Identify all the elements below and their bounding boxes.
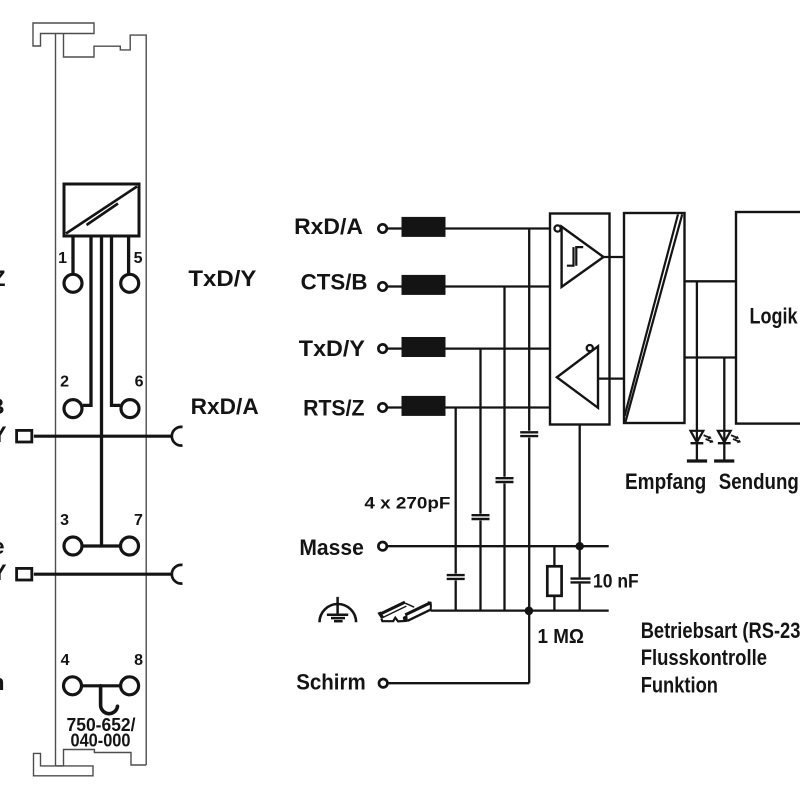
wire U2 to Logik lower xyxy=(685,356,737,358)
capacitor C5 10nF xyxy=(571,579,591,583)
Logik box U3 xyxy=(736,212,800,424)
terminal circle RxD/A xyxy=(378,224,386,232)
resistor R1 1MOhm xyxy=(547,566,561,596)
wire RxD/A to receiver xyxy=(446,227,554,229)
LED D2 arrows xyxy=(731,435,741,443)
module bottom foot xyxy=(34,753,94,775)
wire branch C2 vertical xyxy=(479,349,481,611)
module top inner profile and right edge xyxy=(64,34,147,766)
capacitor C2 270pF xyxy=(472,515,490,519)
svg-text:1: 1 xyxy=(58,250,67,267)
rail right end face xyxy=(430,605,432,611)
LED D1 Empfang xyxy=(691,431,704,460)
pin 7 xyxy=(121,537,139,555)
svg-text:1 MΩ: 1 MΩ xyxy=(538,626,585,648)
driver input bubble xyxy=(587,345,593,351)
svg-text:3: 3 xyxy=(60,512,69,529)
wire box to pin 6 xyxy=(112,236,121,405)
svg-text:5: 5 xyxy=(134,250,143,267)
rail right web left end face xyxy=(403,615,408,621)
isolation diagonal 1 xyxy=(626,214,683,421)
terminal square line 2 xyxy=(17,568,32,580)
svg-text:n: n xyxy=(0,670,5,695)
svg-text:Sendung: Sendung xyxy=(719,469,799,494)
svg-text:TxD/Y: TxD/Y xyxy=(299,336,365,361)
capacitor C3 270pF xyxy=(496,478,514,482)
rail left foot xyxy=(377,612,384,619)
resistor R1 1MOhm wire top xyxy=(553,546,555,566)
svg-text:RTS/Z: RTS/Z xyxy=(303,395,365,420)
wire LED1 anode xyxy=(696,281,698,431)
wire U1 bottom to Masse xyxy=(579,425,581,547)
wire TxD/Y to filter xyxy=(387,347,401,349)
terminal circle RTS/Z xyxy=(378,403,386,411)
svg-text:Z: Z xyxy=(0,266,6,291)
terminal circle TxD/Y xyxy=(378,344,386,352)
svg-text:RxD/A: RxD/A xyxy=(191,394,259,419)
wire Schirm vertical xyxy=(528,611,530,684)
module bottom inner profile xyxy=(56,750,147,766)
svg-text:6: 6 xyxy=(135,374,144,391)
filter bead TxD/Y xyxy=(402,337,446,357)
svg-text:Y: Y xyxy=(0,560,7,585)
pin 2 xyxy=(64,400,82,418)
terminal square line 1 xyxy=(17,430,32,442)
wire Masse bus xyxy=(387,545,609,547)
svg-text:10 nF: 10 nF xyxy=(593,572,639,593)
arc connector line 1 xyxy=(172,427,183,446)
svg-text:TxD/Y: TxD/Y xyxy=(188,266,256,291)
receiver triangle xyxy=(562,227,604,287)
wire pins 3-7 bar xyxy=(83,544,120,547)
svg-text:RxD/A: RxD/A xyxy=(294,214,363,239)
wire line 2 xyxy=(34,573,172,576)
svg-text:e: e xyxy=(0,534,5,559)
resistor R1 wire bottom xyxy=(553,596,555,611)
LED D1 cathode bar xyxy=(687,459,707,462)
pin 5 xyxy=(121,274,139,292)
terminal circle Schirm xyxy=(379,679,387,687)
wire U2 to Logik upper xyxy=(685,280,737,282)
isolation block U2 xyxy=(624,213,685,423)
wire driver input from isolation xyxy=(598,377,624,379)
rail right bottom edge xyxy=(408,610,431,621)
hook below pins 4-8 xyxy=(101,686,118,714)
wire line 1 xyxy=(34,435,172,438)
functional earth bus xyxy=(431,609,609,611)
wire box center to pins 3/7 bar xyxy=(100,236,103,546)
svg-text:Betriebsart (RS-232): Betriebsart (RS-232) xyxy=(641,618,800,643)
svg-text:Logik: Logik xyxy=(750,304,798,329)
wire Schirm horizontal xyxy=(388,682,529,684)
pin 1 xyxy=(64,274,82,292)
earth ground symbol xyxy=(320,597,357,622)
wire RTS/Z to driver corner xyxy=(446,406,599,408)
wire TxD/Y to driver bubble xyxy=(446,347,587,349)
wire box to pin 5 xyxy=(127,236,130,274)
isolation diagonal 2 xyxy=(625,214,678,416)
wire branch C4 vertical xyxy=(528,229,530,611)
svg-text:B: B xyxy=(0,394,5,419)
arc connector line 2 xyxy=(172,565,183,584)
filter bead CTS/B xyxy=(402,275,446,295)
driver triangle xyxy=(557,346,598,408)
junction dot bus/Schirm xyxy=(525,607,534,616)
receiver input bubble xyxy=(555,225,561,231)
pin 4 xyxy=(64,677,82,695)
wire box to pin 2 xyxy=(83,236,91,405)
wire LED2 anode xyxy=(723,358,725,431)
pin 3 xyxy=(64,537,82,555)
rail front bottom profile with notch xyxy=(381,618,407,622)
svg-text:Funktion: Funktion xyxy=(641,673,718,698)
terminal circle Masse xyxy=(378,542,386,550)
svg-text:7: 7 xyxy=(134,512,143,529)
capacitor C1 270pF xyxy=(447,575,465,579)
svg-text:4 x 270pF: 4 x 270pF xyxy=(364,494,450,513)
capacitor C5 10nF wires xyxy=(579,546,581,610)
DIN rail symbol xyxy=(377,601,432,621)
rail right flange top band xyxy=(405,603,429,615)
svg-text:Empfang: Empfang xyxy=(625,469,706,494)
svg-text:CTS/B: CTS/B xyxy=(301,269,368,294)
svg-text:Y: Y xyxy=(0,422,7,447)
wire receiver output xyxy=(604,256,625,258)
hysteresis symbol xyxy=(567,247,583,266)
svg-text:2: 2 xyxy=(60,374,69,391)
capacitor C4 270pF xyxy=(520,432,538,436)
wire CTS/B to filter xyxy=(387,285,401,287)
wire RTS/Z to filter xyxy=(387,406,401,408)
svg-text:Masse: Masse xyxy=(299,535,363,560)
wire RxD/A to filter xyxy=(387,227,401,229)
svg-text:Flusskontrolle: Flusskontrolle xyxy=(641,645,767,670)
rail right web bottom edge xyxy=(408,610,430,621)
pin 8 xyxy=(121,677,139,695)
LED D1 arrows xyxy=(704,435,714,443)
terminal circle CTS/B xyxy=(378,282,386,290)
wire branch C3 vertical xyxy=(503,287,505,611)
junction dot Masse/U1 xyxy=(576,542,584,550)
rail left web bottom edge xyxy=(382,606,407,618)
transceiver box U1 xyxy=(550,214,610,425)
rail left flange top band xyxy=(380,602,406,614)
module left edge xyxy=(55,34,57,766)
rail right end cap xyxy=(428,601,432,605)
connector box with diagonal (module top) xyxy=(64,184,139,236)
wire CTS/B to receiver xyxy=(446,285,562,287)
rail channel back edge xyxy=(405,603,414,607)
module outline top flag xyxy=(33,23,94,46)
svg-text:Schirm: Schirm xyxy=(296,669,366,694)
LED D2 cathode bar xyxy=(714,459,734,462)
filter bead RTS/Z xyxy=(402,396,446,416)
wire branch C1 vertical xyxy=(455,408,457,611)
svg-text:4: 4 xyxy=(61,652,70,669)
LED D2 Sendung xyxy=(718,431,731,460)
svg-text:8: 8 xyxy=(134,652,143,669)
filter bead RxD/A xyxy=(402,217,446,237)
svg-text:040-000: 040-000 xyxy=(71,731,131,751)
wire pins 4-8 bar xyxy=(82,684,120,687)
wire box to pin 1 xyxy=(71,236,74,274)
pin 6 xyxy=(121,400,139,418)
